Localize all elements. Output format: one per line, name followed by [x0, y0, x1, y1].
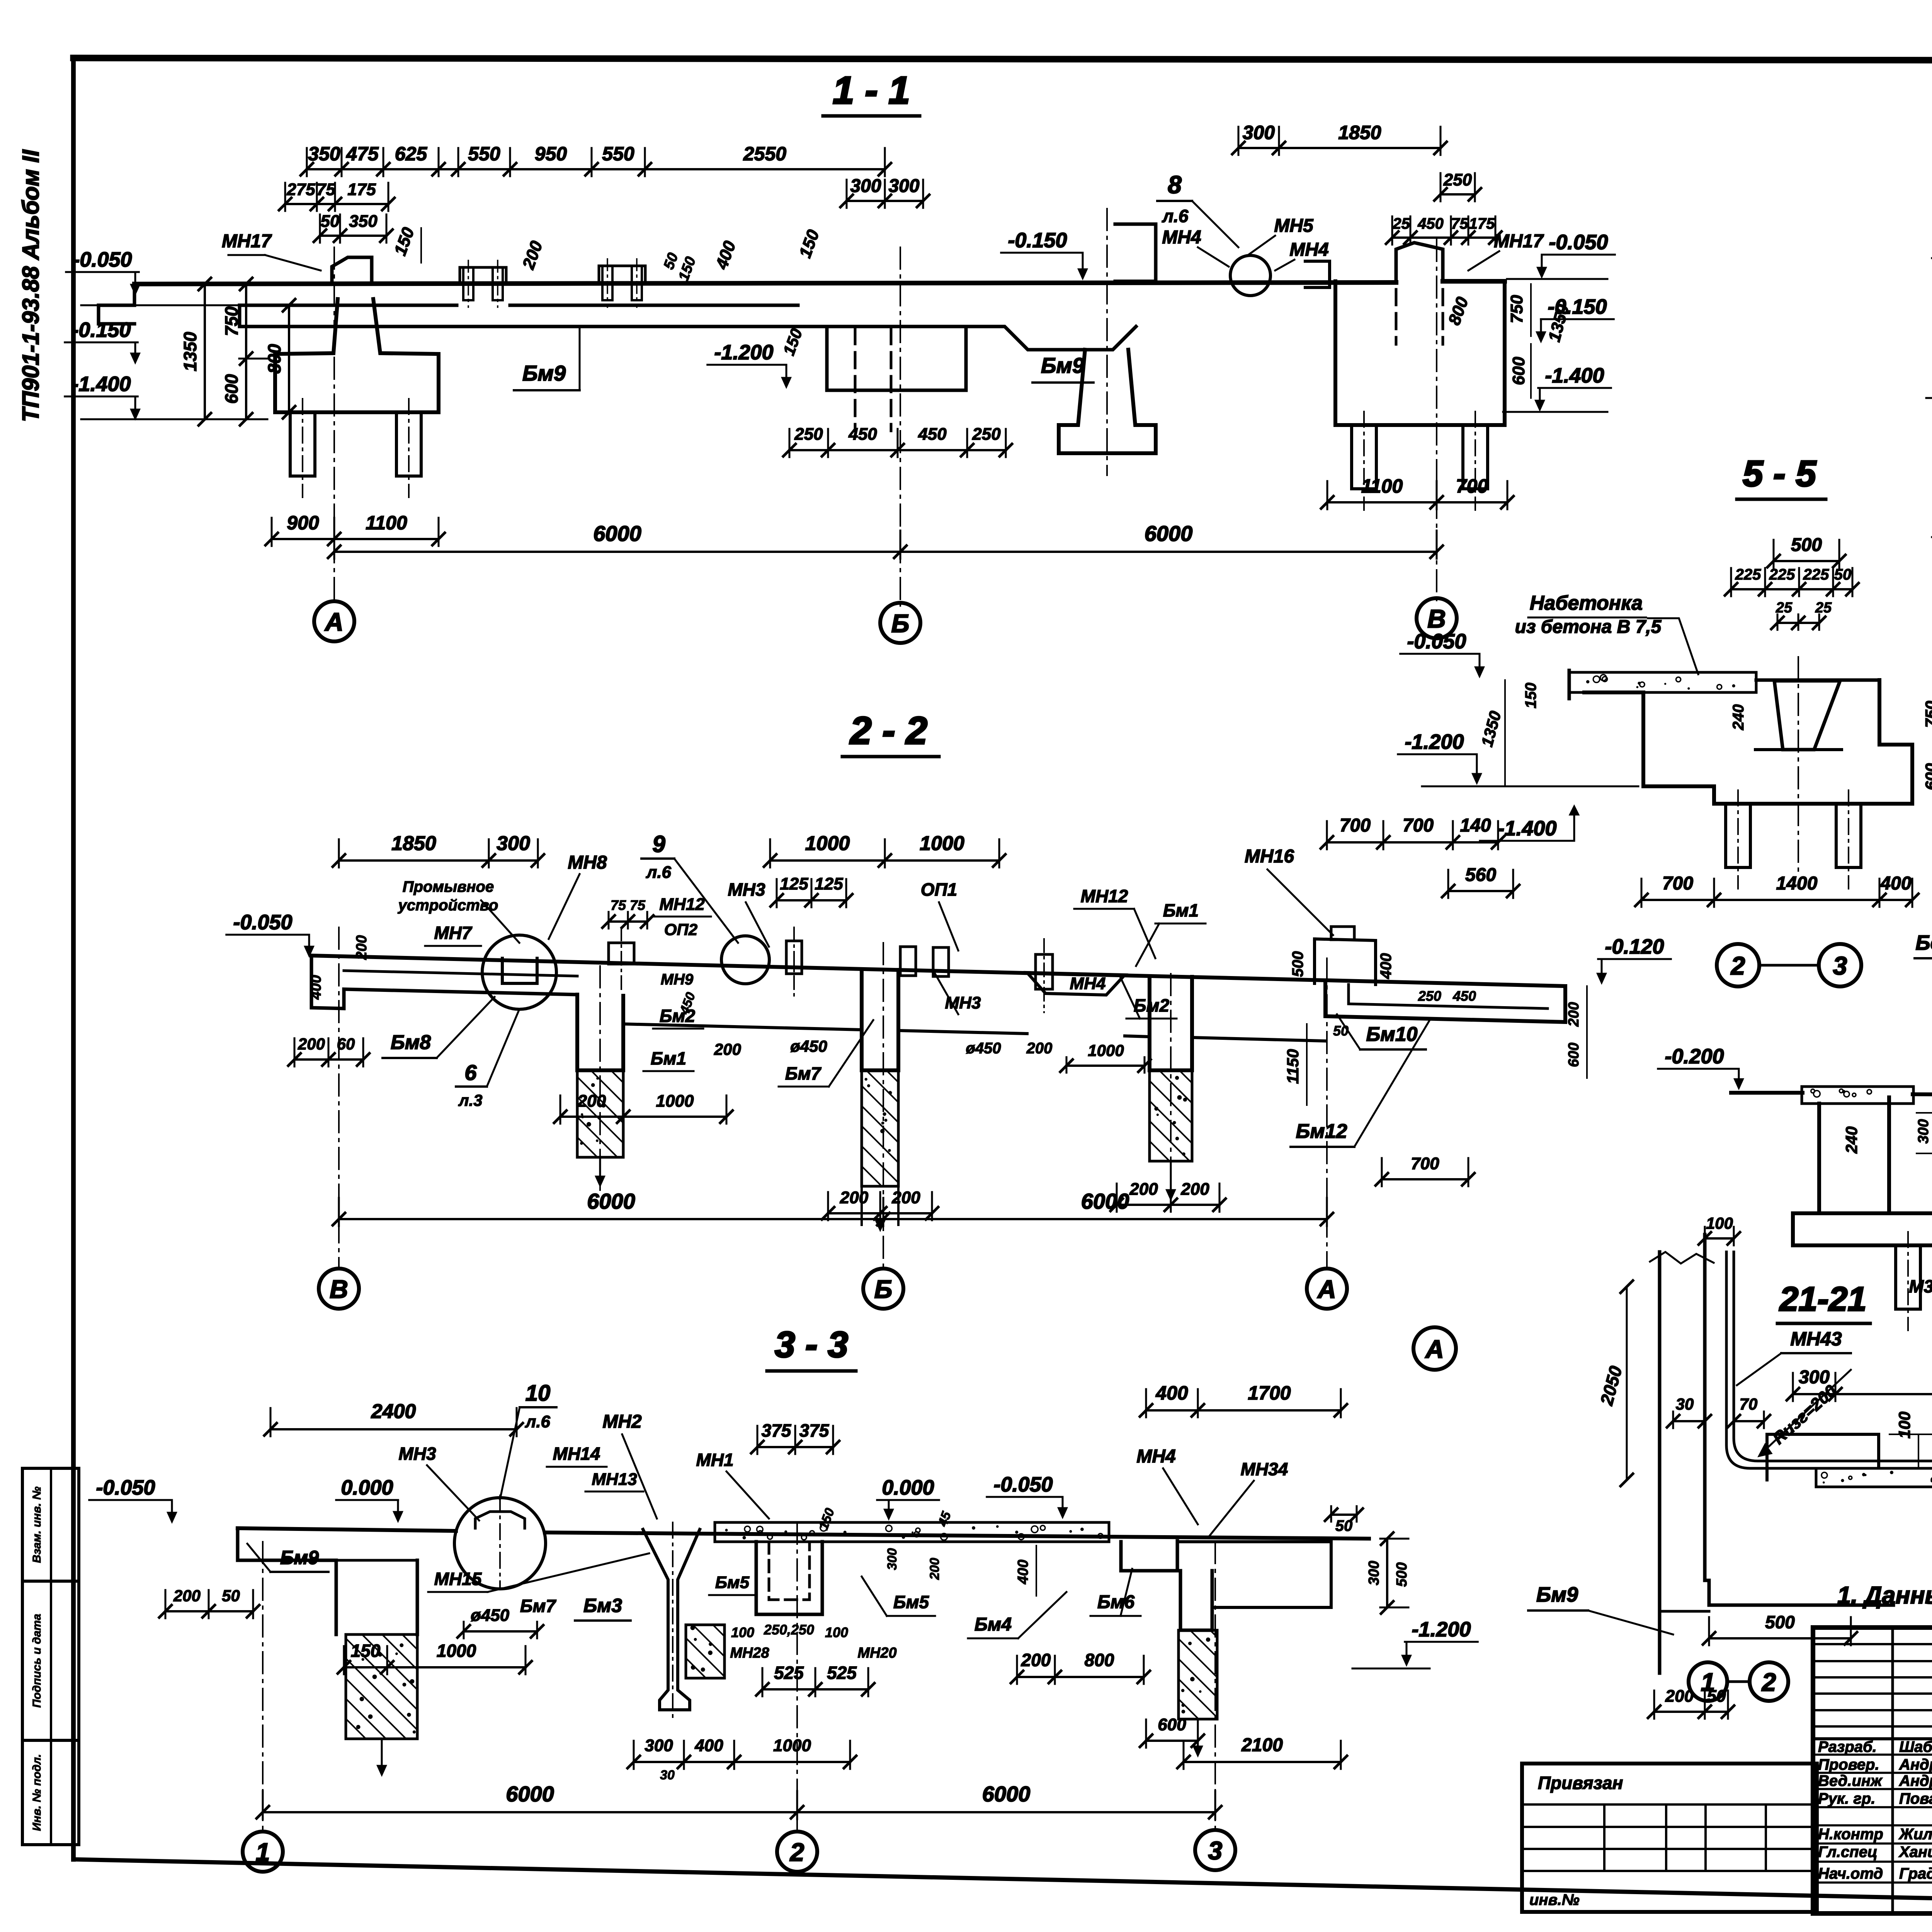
svg-text:Ханин: Ханин — [1898, 1844, 1932, 1861]
svg-text:-0.050: -0.050 — [73, 248, 132, 271]
3-3 axis centerline 1 — [262, 1542, 264, 1831]
svg-text:625: 625 — [395, 143, 428, 165]
svg-text:Разраб.: Разраб. — [1818, 1738, 1877, 1755]
svg-text:Бм1: Бм1 — [651, 1048, 686, 1068]
svg-text:1700: 1700 — [1248, 1382, 1291, 1404]
section 1-1 mid pier — [1059, 350, 1156, 453]
4-4 top line — [1731, 1091, 1803, 1095]
2-2 pier right centerline — [1170, 974, 1172, 1202]
svg-text:525: 525 — [774, 1663, 804, 1683]
section 1-1 pit at axis B — [827, 327, 966, 390]
svg-text:150: 150 — [816, 1506, 837, 1532]
2-2 dim 700 right — [1382, 1178, 1468, 1180]
svg-text:МН8: МН8 — [568, 852, 607, 873]
svg-text:475: 475 — [346, 143, 379, 165]
2-2 pier right tail — [1170, 1161, 1172, 1194]
svg-text:В: В — [1427, 604, 1446, 633]
svg-text:Бм8: Бм8 — [391, 1031, 431, 1054]
svg-text:200: 200 — [840, 1188, 869, 1207]
svg-text:МН4: МН4 — [1070, 974, 1106, 993]
svg-text:375: 375 — [799, 1420, 830, 1440]
dim row 250-450-450-250 — [789, 449, 1006, 451]
svg-text:75: 75 — [611, 897, 626, 913]
svg-text:МН13: МН13 — [592, 1470, 637, 1489]
svg-text:1000: 1000 — [773, 1736, 811, 1755]
svg-text:45: 45 — [935, 1509, 954, 1529]
axis B centerline — [900, 247, 901, 606]
svg-text:700: 700 — [1411, 1154, 1439, 1173]
svg-text:1: 1 — [256, 1838, 270, 1866]
svg-text:-0.050: -0.050 — [993, 1473, 1053, 1496]
2-2 second line left — [344, 971, 577, 976]
title block mid separator — [1813, 1737, 1932, 1740]
svg-text:0.000: 0.000 — [341, 1476, 393, 1499]
5-5 strip — [1569, 672, 1756, 692]
axis circle A — [314, 601, 354, 641]
2-2 pier left — [577, 995, 623, 1070]
svg-text:МН3: МН3 — [728, 879, 765, 900]
section 1-1 slab second line b — [510, 304, 798, 307]
svg-text:2050: 2050 — [1596, 1364, 1626, 1408]
3-3 dim 200-800 — [1017, 1676, 1144, 1678]
svg-text:Бм2: Бм2 — [660, 1006, 696, 1026]
svg-text:200: 200 — [1021, 1650, 1051, 1670]
3-3 dim 600 — [1146, 1740, 1198, 1742]
svg-text:75: 75 — [1451, 215, 1468, 232]
svg-text:275: 275 — [286, 180, 315, 199]
stamp box Inv N podl — [22, 1740, 79, 1845]
svg-text:150: 150 — [391, 225, 418, 258]
svg-text:л.6: л.6 — [1162, 206, 1189, 226]
svg-text:500: 500 — [1765, 1612, 1795, 1632]
2-2 dim row 700-700-140 — [1327, 841, 1498, 844]
axis circle V — [1417, 598, 1457, 638]
element MN17 block — [332, 257, 372, 284]
svg-text:Инв. № подл.: Инв. № подл. — [31, 1754, 43, 1831]
svg-text:Гл.спец: Гл.спец — [1818, 1844, 1878, 1861]
svg-text:2100: 2100 — [1241, 1735, 1283, 1755]
2-2 axis centerline V — [338, 927, 340, 1267]
svg-text:-1.200: -1.200 — [1412, 1618, 1471, 1641]
pile left pier 2 — [396, 412, 421, 476]
svg-text:Б: Б — [891, 609, 910, 638]
21-21 wall break mark — [1650, 1252, 1714, 1264]
svg-text:100: 100 — [1706, 1214, 1733, 1232]
svg-text:250: 250 — [972, 425, 1001, 444]
svg-text:-1.200: -1.200 — [714, 341, 773, 364]
svg-text:Подпись и дата: Подпись и дата — [31, 1614, 43, 1708]
pile right pier 1 — [1352, 425, 1376, 489]
2-2 pier right — [1150, 976, 1192, 1070]
svg-text:МН28: МН28 — [730, 1645, 769, 1661]
svg-text:50: 50 — [321, 212, 340, 231]
extra axis circle A right — [1413, 1327, 1456, 1370]
5-5 trapezoid pier — [1774, 681, 1840, 750]
svg-text:из бетона В 7,5: из бетона В 7,5 — [1515, 617, 1662, 637]
dim row 350-475-625-550-950-550-2550 — [307, 168, 885, 170]
5-5 dim bottom 700-1400-400 — [1641, 899, 1912, 901]
svg-text:МН1: МН1 — [696, 1450, 733, 1470]
svg-text:Бм10: Бм10 — [1366, 1023, 1417, 1046]
2-2 slab bottom line e — [1192, 1037, 1325, 1041]
svg-text:175: 175 — [347, 180, 376, 199]
2-2 dim 200-1000 left — [560, 1116, 726, 1118]
4-4 pile 1 — [1896, 1245, 1920, 1309]
21-21 steel angle MN43 — [1726, 1252, 1932, 1468]
svg-text:1150: 1150 — [1284, 1049, 1302, 1084]
svg-text:10: 10 — [526, 1381, 551, 1406]
svg-text:2400: 2400 — [371, 1400, 416, 1423]
svg-text:Бм7: Бм7 — [520, 1596, 557, 1616]
svg-text:-0.150: -0.150 — [1008, 229, 1067, 252]
3-3 axis circle 2 — [777, 1832, 817, 1872]
axis V centerline 1-1 — [1436, 240, 1437, 601]
svg-text:-1.200: -1.200 — [1405, 730, 1464, 753]
svg-text:1850: 1850 — [391, 832, 436, 855]
svg-text:инв.№: инв.№ — [1529, 1891, 1580, 1908]
svg-text:-0.200: -0.200 — [1665, 1045, 1724, 1068]
2-2 pier left centerline — [599, 966, 601, 1190]
svg-text:МН5: МН5 — [1274, 216, 1314, 236]
3-3 strip — [715, 1522, 1109, 1542]
svg-text:450: 450 — [848, 425, 877, 444]
svg-text:125: 125 — [780, 874, 808, 893]
dim 6000 line 1-1 — [334, 551, 1437, 553]
5-5 pile 2 — [1836, 804, 1861, 867]
svg-text:300: 300 — [497, 832, 530, 855]
svg-text:Поваляева: Поваляева — [1899, 1790, 1932, 1807]
svg-text:Бм9: Бм9 — [280, 1547, 319, 1568]
svg-text:30: 30 — [660, 1768, 675, 1782]
svg-text:1000: 1000 — [437, 1641, 476, 1661]
3-3 right pier tail — [1197, 1719, 1199, 1750]
svg-text:750: 750 — [1507, 295, 1526, 323]
21-21 dim 500 — [1709, 1637, 1851, 1639]
svg-text:150: 150 — [351, 1641, 381, 1661]
2-2 left wall — [311, 956, 577, 1009]
axis A centerline — [333, 247, 335, 603]
3-3 main top line — [238, 1528, 456, 1531]
svg-text:750: 750 — [1922, 701, 1932, 728]
svg-text:50: 50 — [222, 1587, 240, 1605]
2-2 axis circle B — [863, 1269, 903, 1309]
svg-text:6000: 6000 — [506, 1782, 554, 1806]
2-2 pier right hatch — [1150, 1070, 1192, 1161]
section 1-1 right block MN17 — [1396, 243, 1443, 281]
svg-text:МН17: МН17 — [1494, 231, 1544, 252]
3-3 dim 375-375 — [757, 1446, 833, 1448]
2-2 slab bottom line c — [898, 1031, 1027, 1034]
svg-text:100: 100 — [825, 1624, 848, 1640]
3-3 dim 400-1700 — [1146, 1409, 1341, 1412]
svg-text:200: 200 — [1026, 1040, 1053, 1057]
21-21 wall left edge — [1658, 1252, 1662, 1642]
section 1-1 slab lower line — [240, 327, 1136, 350]
svg-text:600: 600 — [1922, 763, 1932, 790]
title block name row line 5 — [1813, 1824, 1932, 1827]
2-2 slab bottom line d — [1125, 1036, 1150, 1037]
svg-text:550: 550 — [468, 143, 500, 165]
title block name row line 1 — [1813, 1753, 1932, 1756]
2-2 slab bottom line b — [623, 1024, 862, 1030]
svg-text:200: 200 — [519, 238, 546, 272]
21-21 axis circles 1-2 — [1689, 1662, 1727, 1701]
svg-text:6000: 6000 — [1081, 1189, 1129, 1213]
2-2 stub pins pair — [900, 947, 916, 976]
svg-text:225: 225 — [1803, 566, 1829, 583]
21-21 bottom outline — [1658, 1611, 1662, 1673]
svg-text:Бм4: Бм4 — [975, 1614, 1012, 1635]
svg-text:Н.контр: Н.контр — [1818, 1826, 1883, 1843]
svg-text:200: 200 — [1566, 1002, 1582, 1027]
privyazan table columns — [1603, 1804, 1605, 1871]
3-3 dim 2100 — [1184, 1761, 1341, 1763]
svg-text:В: В — [330, 1275, 348, 1303]
svg-text:800: 800 — [1085, 1650, 1114, 1670]
svg-text:МН20: МН20 — [857, 1645, 896, 1661]
5-5 pile 1 — [1726, 804, 1750, 867]
svg-text:1100: 1100 — [1361, 475, 1403, 497]
title block revision row line 5 — [1813, 1709, 1932, 1711]
svg-text:1000: 1000 — [1088, 1041, 1124, 1060]
2-2 right slab — [1325, 983, 1565, 1022]
5-5 pier centerline — [1798, 657, 1799, 877]
svg-text:550: 550 — [602, 143, 634, 165]
section 1-1 left edge step — [99, 284, 134, 324]
svg-text:устройство: устройство — [398, 897, 498, 914]
2-2 dim 200-200 mid — [828, 1212, 932, 1214]
svg-text:800: 800 — [264, 344, 284, 374]
svg-text:ТП901-1-93.88 Альбом II: ТП901-1-93.88 Альбом II — [18, 149, 44, 422]
svg-text:600: 600 — [221, 374, 241, 404]
3-3 dim col right — [1386, 1539, 1388, 1607]
3-3 dim 2400 — [270, 1428, 517, 1430]
svg-text:ОП2: ОП2 — [664, 920, 697, 939]
svg-text:700: 700 — [1340, 815, 1371, 836]
svg-text:200: 200 — [1180, 1180, 1209, 1199]
title block column line 1 — [1891, 1628, 1894, 1913]
svg-text:525: 525 — [827, 1663, 857, 1683]
svg-text:2 - 2: 2 - 2 — [849, 709, 927, 752]
svg-text:6000: 6000 — [1145, 521, 1193, 546]
5-5 top line right — [1756, 679, 1879, 682]
2-2 dim 560 — [1448, 890, 1513, 892]
svg-text:8: 8 — [1168, 171, 1182, 199]
pile left pier 1 — [290, 412, 315, 476]
2-2 dim 200-200 right — [1117, 1204, 1219, 1206]
3-3 axis circle 1 — [243, 1832, 283, 1872]
drawing frame left border — [71, 58, 76, 1859]
svg-text:Бм3: Бм3 — [583, 1595, 622, 1616]
svg-text:2550: 2550 — [743, 143, 786, 165]
svg-text:1850: 1850 — [1338, 122, 1381, 143]
section 1-1 left pier — [275, 299, 439, 412]
svg-text:400: 400 — [1015, 1560, 1031, 1584]
title block name row line 8 — [1813, 1881, 1932, 1884]
svg-text:300: 300 — [1915, 1119, 1932, 1143]
svg-text:250,250: 250,250 — [764, 1622, 814, 1638]
svg-text:200: 200 — [891, 1188, 920, 1207]
svg-text:Рук. гр.: Рук. гр. — [1818, 1790, 1875, 1807]
svg-text:-1.400: -1.400 — [1545, 364, 1604, 387]
svg-text:Бм5: Бм5 — [715, 1573, 750, 1592]
3-3 funnel hatch — [686, 1625, 724, 1678]
3-3 left pit hatch — [346, 1634, 417, 1739]
svg-text:3 - 3: 3 - 3 — [775, 1324, 848, 1365]
svg-text:400: 400 — [308, 975, 324, 1000]
svg-text:1000: 1000 — [656, 1092, 694, 1111]
svg-text:МН12: МН12 — [659, 895, 705, 914]
svg-text:Андреева: Андреева — [1899, 1772, 1932, 1789]
3-3 axis centerline 2 — [796, 1522, 798, 1831]
svg-text:МН9: МН9 — [661, 971, 694, 988]
3-3 dim 300-400-1000 — [634, 1761, 850, 1763]
21-21 curb block — [1767, 1434, 1879, 1480]
svg-text:-0.050: -0.050 — [1407, 630, 1466, 653]
2-2 axis centerline A — [1326, 958, 1328, 1267]
svg-text:300: 300 — [888, 176, 919, 196]
svg-text:2: 2 — [1761, 1668, 1776, 1696]
svg-text:125: 125 — [815, 874, 843, 893]
svg-text:Провер.: Провер. — [1818, 1756, 1879, 1773]
svg-text:Бм2: Бм2 — [1134, 995, 1170, 1015]
2-2 pier left hatch — [577, 1070, 623, 1157]
5-5 dim 500 top — [1774, 560, 1839, 562]
svg-text:Жило: Жило — [1898, 1826, 1932, 1843]
dim row 300-300 — [847, 200, 923, 202]
svg-text:600: 600 — [1158, 1715, 1186, 1734]
svg-text:30: 30 — [1676, 1395, 1694, 1413]
21-21 dim 200-50 — [1654, 1711, 1728, 1713]
svg-text:М34: М34 — [1909, 1276, 1932, 1296]
4-4 pier mid — [1817, 1104, 1821, 1213]
svg-text:А: А — [324, 607, 344, 636]
svg-text:350: 350 — [308, 143, 340, 165]
3-3 axis centerline 3 — [1214, 1542, 1216, 1829]
svg-text:МН16: МН16 — [1245, 846, 1294, 867]
3-3 dim 6000 line — [263, 1811, 1215, 1813]
svg-text:300: 300 — [885, 1548, 900, 1570]
svg-text:500: 500 — [1791, 535, 1822, 555]
2-2 stub MN3 pin — [786, 941, 802, 974]
svg-text:150: 150 — [796, 227, 823, 260]
drawing frame top border — [73, 58, 1932, 61]
svg-text:Промывное: Промывное — [403, 878, 494, 895]
svg-text:МН14: МН14 — [553, 1444, 600, 1464]
2-2 dim 125-125 — [777, 899, 846, 901]
section 1-1 slab top line right — [1443, 279, 1505, 284]
2-2 right end block MN16 — [1313, 939, 1316, 983]
svg-text:375: 375 — [762, 1420, 792, 1440]
svg-text:21-21: 21-21 — [1779, 1280, 1866, 1318]
dim col 750-600 left — [245, 284, 247, 419]
svg-text:50: 50 — [1834, 566, 1852, 583]
2-2 dim 6000 line — [339, 1218, 1327, 1220]
3-3 dim 200-50 left — [165, 1610, 253, 1612]
svg-text:25: 25 — [1815, 600, 1832, 616]
3-3 center pier — [756, 1542, 822, 1614]
dim row 1100-700 — [1327, 501, 1507, 503]
svg-text:МН17: МН17 — [222, 231, 272, 252]
embedded part stub group 1 — [460, 267, 506, 284]
svg-text:-0.120: -0.120 — [1605, 935, 1664, 958]
svg-text:-0.050: -0.050 — [1549, 231, 1608, 254]
svg-text:Rизг=200: Rизг=200 — [1769, 1381, 1840, 1448]
mid pier centerline — [1106, 209, 1108, 475]
svg-text:75: 75 — [630, 897, 646, 913]
svg-text:Градобоев: Градобоев — [1899, 1865, 1932, 1882]
dim row 275-75-175 — [285, 203, 388, 205]
svg-text:1350: 1350 — [1478, 709, 1505, 748]
svg-text:300: 300 — [1243, 122, 1275, 143]
svg-text:300: 300 — [850, 176, 881, 196]
svg-text:1350: 1350 — [180, 332, 200, 371]
3-3 right pier — [1180, 1571, 1212, 1630]
dim row 25-450-75-175 — [1392, 236, 1495, 239]
2-2 dim 200-60 left — [294, 1058, 363, 1061]
svg-text:600: 600 — [1566, 1043, 1582, 1067]
level line right top — [1507, 278, 1607, 280]
title block outer box — [1813, 1628, 1932, 1913]
svg-text:500: 500 — [1289, 951, 1306, 977]
svg-text:75: 75 — [316, 180, 335, 199]
svg-text:700: 700 — [1662, 873, 1693, 894]
privyazan table rows — [1522, 1803, 1817, 1806]
stamp box Podpis i data — [22, 1581, 79, 1740]
svg-text:Б: Б — [874, 1275, 893, 1303]
3-3 left outline — [238, 1528, 336, 1634]
svg-text:250: 250 — [1443, 170, 1472, 189]
svg-text:50: 50 — [1333, 1023, 1349, 1039]
svg-text:560: 560 — [1465, 865, 1496, 885]
svg-text:2: 2 — [1730, 951, 1745, 980]
svg-text:225: 225 — [1735, 566, 1761, 583]
dim row 300-1850 — [1238, 147, 1440, 149]
title block revision row line 3 — [1813, 1676, 1932, 1679]
svg-text:-0.150: -0.150 — [1548, 295, 1607, 318]
svg-text:Бм9: Бм9 — [1536, 1583, 1578, 1606]
svg-text:200: 200 — [927, 1558, 942, 1580]
svg-text:МН2: МН2 — [602, 1412, 642, 1432]
5-5 axis circles 2-3 — [1717, 944, 1759, 986]
2-2 detail circle big — [482, 935, 556, 1009]
svg-text:950: 950 — [535, 143, 567, 165]
element MN4 oval — [1305, 261, 1330, 287]
4-4 cap — [1793, 1213, 1932, 1245]
title block name row line 2 — [1813, 1772, 1932, 1774]
scheme axis line B horizontal — [1926, 397, 1932, 399]
2-2 dim row 1000-1000 — [770, 859, 999, 862]
svg-text:900: 900 — [287, 512, 319, 534]
3-3 right pier hatch — [1179, 1630, 1217, 1719]
svg-text:150: 150 — [1522, 683, 1539, 709]
svg-text:ø450: ø450 — [471, 1606, 510, 1625]
level line -0.150 left — [81, 304, 240, 306]
2-2 stub OP2 — [609, 943, 634, 964]
3-3 right block — [1121, 1541, 1177, 1571]
svg-text:Взам. инв. №: Взам. инв. № — [31, 1486, 43, 1563]
title block revision row line 6 — [1813, 1725, 1932, 1728]
svg-text:МН15: МН15 — [434, 1569, 482, 1589]
5-5 dim row 225-225-225-50 — [1731, 588, 1852, 590]
svg-text:6000: 6000 — [593, 521, 641, 546]
svg-text:МН4: МН4 — [1136, 1446, 1175, 1467]
section 1-1 slab top line — [134, 282, 1396, 284]
svg-text:Бм9: Бм9 — [522, 361, 566, 385]
21-21 top dim 100 — [1705, 1237, 1734, 1240]
svg-text:МН4: МН4 — [1162, 227, 1201, 248]
svg-text:300: 300 — [1366, 1561, 1382, 1585]
